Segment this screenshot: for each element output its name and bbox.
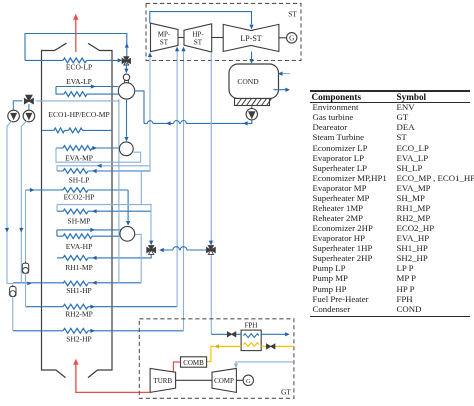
drum - MP steam drum xyxy=(119,142,133,156)
wire - valve to deaerator xyxy=(125,63,127,69)
arrow cooling out xyxy=(285,88,290,92)
table header row xyxy=(312,92,362,102)
coil FPH water side xyxy=(244,334,259,338)
wire - crossover MP-ST exhaust to LP-ST inlet xyxy=(150,12,252,25)
arrow feedwater right xyxy=(27,282,31,286)
wire - FPH water outlet xyxy=(261,333,285,335)
coil ECO2-HP economizer xyxy=(63,188,88,193)
arrow into MP-ST xyxy=(175,47,179,52)
wire - feedwater to FPH xyxy=(211,333,241,335)
valve - reheat admission valve left xyxy=(147,247,151,252)
arrow cooling in xyxy=(278,72,283,76)
table bottom rule xyxy=(310,316,470,317)
arrow into HP drum xyxy=(126,221,130,226)
wire - shaft LP to generator xyxy=(279,37,287,39)
valve - deaerator inlet valve xyxy=(122,58,126,63)
arrow condensate flow left near pump xyxy=(243,121,248,125)
wire - cooling water outlet xyxy=(274,89,286,91)
wire - ECO-LP recirculation loop top-left xyxy=(25,34,127,61)
arrow water out right xyxy=(285,332,290,336)
wire - SH-MP steam pipe xyxy=(57,210,151,212)
wire - ECO-LP pipe xyxy=(25,59,63,61)
ST dashed boundary box xyxy=(146,3,301,60)
wire - SH1-HP pipe xyxy=(13,282,141,284)
turbine LP-ST xyxy=(223,24,279,51)
arrow into deaerator xyxy=(91,84,96,88)
wire - condenser to condensate pump xyxy=(251,106,253,109)
arrow down on discharge xyxy=(5,228,9,233)
wire - deaerator outlet right to condensate riser xyxy=(135,91,144,124)
arrow RH1 flow xyxy=(92,256,97,260)
wire - pump discharge drop left xyxy=(7,121,13,284)
generator G of steam turbine xyxy=(287,33,297,43)
generator G of gas turbine xyxy=(243,375,253,385)
wire - EVA-HP pipe to HP drum xyxy=(57,235,121,237)
arrow - exhaust enters HRSG xyxy=(73,359,78,365)
wire - shaft HP-LP xyxy=(212,37,224,39)
wire - SH-MP steam jog to SH-LP riser xyxy=(57,172,151,242)
wire - SH1-HP riser from HP drum right xyxy=(134,234,141,282)
arrow fuel flow left xyxy=(214,344,219,348)
arrow into MP drum xyxy=(92,146,97,150)
arrow air into compressor xyxy=(234,364,238,369)
arrow down into deaerator xyxy=(124,69,128,74)
coil SH-MP superheater xyxy=(63,209,88,214)
wire - shaft MP-HP xyxy=(178,37,184,39)
arrow into HP drum upper side xyxy=(90,228,95,232)
arrow into condenser xyxy=(249,59,253,64)
wire - HP-ST exhaust downcomer to valves and FPH xyxy=(210,52,212,334)
deaerator DEA vessel xyxy=(118,83,134,99)
pump LP P (left circle pump) xyxy=(8,110,20,122)
coil EVA-LP evaporator xyxy=(64,92,87,97)
wire - ECO2-HP pipe from HP pump xyxy=(26,189,129,191)
coil SH-LP superheater xyxy=(63,169,88,174)
arrow into LP-ST top xyxy=(249,25,253,30)
compressor COMP xyxy=(212,368,236,392)
arrow SH1 flow xyxy=(92,281,97,285)
coil RH1-MP reheater xyxy=(63,256,88,261)
table top rule xyxy=(310,90,470,91)
coil EVA-MP evaporator xyxy=(63,146,92,151)
arrow into DEA valve xyxy=(118,58,123,62)
arrow SH2 flow xyxy=(90,329,95,333)
arrow steam flow left xyxy=(97,164,102,168)
wire - fuel gas supply xyxy=(261,345,294,347)
arrow ECO2 feed right xyxy=(30,188,35,192)
wire - pump discharge drop right xyxy=(21,121,27,284)
arrow down into valve 2 xyxy=(209,241,213,246)
wire - MP drum steam line xyxy=(57,166,150,171)
drum - HP steam drum xyxy=(120,226,135,241)
GT dashed boundary box xyxy=(139,319,294,399)
wire - economizer feed line hugging wall xyxy=(118,99,120,284)
condenser COND vessel xyxy=(229,64,279,99)
combustor COMB box xyxy=(181,357,207,367)
coil ECO1-HP/ECO-MP economizer (double) xyxy=(54,128,65,133)
condenser support (hatched) xyxy=(235,99,270,106)
valve - reheat admission valve right xyxy=(207,247,211,252)
wire - HP pump drop to RH2 header xyxy=(25,273,27,306)
wire - LP-ST exhaust to condenser xyxy=(251,52,253,60)
wire - EVA-LP coil pipe and U-bend xyxy=(56,87,119,95)
wire - air intake line xyxy=(236,362,294,364)
table header rule xyxy=(310,101,470,104)
arrow RH2 flow xyxy=(90,305,95,309)
wire - stack exhaust (red) top xyxy=(75,20,77,53)
wire - ECO2-HP outlet to HP drum xyxy=(127,190,129,221)
coil ECO-LP heat exchanger xyxy=(63,58,87,63)
pump MP P (small canned pump) xyxy=(10,287,16,297)
coil SH2-HP superheater xyxy=(63,328,88,333)
wire - combustor to turbine (red) xyxy=(173,362,180,372)
arrow down on discharge 2 xyxy=(19,228,23,233)
HRSG tower casing (boiler duct outline) xyxy=(42,43,67,377)
wire - RH2-MP hot reheat pipe to MP-ST xyxy=(26,306,178,308)
wire - EVA-MP pipe to MP drum xyxy=(56,147,120,149)
wire - main steam riser to HP-ST inlet xyxy=(183,51,185,331)
pump - condensate pump xyxy=(246,109,257,120)
wire - RH2 riser to MP-ST inlet xyxy=(176,51,178,307)
wire - GT exhaust duct (red) from turbine to HRSG bottom xyxy=(76,364,150,393)
valve - three-way recirculation valve xyxy=(24,98,29,103)
coil RH2-MP reheater xyxy=(63,304,88,309)
wire - ECO1-HP/ECO-MP pipe xyxy=(42,129,55,131)
valve - FPH water valve xyxy=(227,332,231,337)
pump LP P second (right circle pump) xyxy=(23,110,35,122)
arrow down into valve 1 xyxy=(149,241,153,246)
fuel pre-heater FPH box xyxy=(241,330,261,351)
wire - shaft to GT generator xyxy=(236,379,243,381)
arrow into MP drum top xyxy=(124,137,128,142)
wire - HP pump riser to ECO2-HP xyxy=(25,190,27,262)
arrow - exhaust up xyxy=(73,14,78,20)
wire - EVA-HP upper line into drum xyxy=(57,230,121,236)
turbine TURB of gas turbine xyxy=(150,368,176,392)
wire - RH1-MP cold reheat pipe xyxy=(57,255,151,258)
wire - valve row header xyxy=(160,249,207,251)
turbine MP-ST xyxy=(151,23,179,52)
wire - EVA-MP downcomer loop xyxy=(56,148,141,162)
wire - GT shaft xyxy=(176,379,212,381)
valve - fuel valve xyxy=(267,344,271,349)
wire - MP pump drop to SH2 header xyxy=(12,297,14,331)
wire - cooling water inlet xyxy=(282,73,290,75)
wire - SH-LP steam pipe to crossover xyxy=(57,170,150,172)
wire - EVA-LP outlet to deaerator xyxy=(56,86,119,88)
deaerator DEA vent dome xyxy=(123,74,129,80)
wire - SH-LP steam riser joining crossover xyxy=(149,57,151,172)
wire - condensate line to deaerator xyxy=(144,120,252,124)
coil SH1-HP superheater xyxy=(63,281,88,286)
pump HP P (small canned pump) xyxy=(22,263,28,273)
arrow LP steam into MP-ST exhaust xyxy=(148,52,152,57)
wire - fuel to combustor xyxy=(207,346,241,361)
turbine HP-ST xyxy=(184,24,212,52)
arrow - recirculation upward xyxy=(125,43,129,48)
wire - to MP pump xyxy=(28,104,30,110)
wire - deaerator drain to MP drum xyxy=(126,99,128,137)
wire - LP pump suction header xyxy=(13,101,22,110)
arrow SH-LP flow xyxy=(92,169,97,173)
wire - deaerator suction line to LP pumps xyxy=(36,100,119,102)
arrow SH-MP flow xyxy=(92,209,97,213)
arrow condensate flow left mid xyxy=(166,121,171,125)
arrow toward left valve xyxy=(159,248,164,252)
arrow into HP-ST xyxy=(181,47,185,52)
wire - SH2-HP main steam pipe xyxy=(13,330,184,332)
coil EVA-HP evaporator xyxy=(63,234,92,239)
coil FPH fuel side xyxy=(244,343,259,347)
